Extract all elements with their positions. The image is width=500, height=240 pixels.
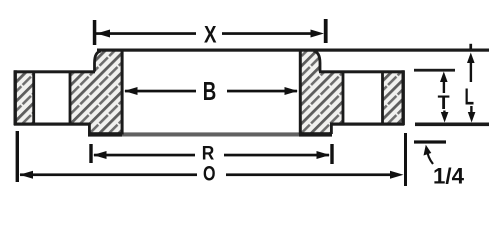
- L dimension arrow up: [467, 53, 475, 64]
- raised face right edge: [330, 123, 333, 134]
- bore left wall: [121, 50, 124, 135]
- ring top line left: [14, 70, 95, 73]
- 1/4 leader arrow: [427, 150, 433, 164]
- raised face bottom line ends: [88, 132, 122, 136]
- ring bottom line left: [14, 123, 90, 126]
- svg-text:B: B: [203, 76, 217, 106]
- ring bottom extension line (T/L reference): [415, 123, 489, 127]
- R dimension left tick: [89, 144, 92, 163]
- hatched left hub wall + ring + raised face left: [70, 51, 122, 134]
- R dimension line with arrows: [93, 151, 107, 159]
- raised face left edge: [88, 123, 91, 134]
- ring left edge: [14, 70, 17, 125]
- L dimension top tick above reference line: [469, 44, 472, 49]
- left hub wall and fillet: [95, 51, 102, 72]
- ring top line right: [319, 70, 404, 73]
- svg-text:X: X: [204, 21, 217, 48]
- 1/4 reference line (raised face bottom extended): [414, 140, 446, 143]
- hatched ring section right strip: [383, 72, 403, 123]
- hub top line (extends right as L reference): [97, 49, 489, 52]
- right bolt hole left line: [342, 72, 345, 123]
- left bolt hole left line: [32, 72, 35, 123]
- ring right edge: [402, 70, 405, 125]
- T dimension arrow down: [443, 111, 445, 116]
- svg-text:O: O: [203, 163, 216, 186]
- L dimension arrow down: [470, 106, 472, 115]
- O dimension line with arrows: [20, 171, 34, 179]
- left bolt hole right line: [69, 72, 72, 123]
- hatched ring section left strip: [16, 72, 33, 123]
- O dimension left tick: [16, 131, 19, 182]
- T dimension arrow up: [440, 72, 448, 83]
- R dimension right tick: [330, 144, 333, 164]
- O dimension right extension line: [404, 133, 407, 186]
- svg-text:R: R: [202, 143, 215, 165]
- X dimension left tick: [93, 20, 97, 45]
- svg-text:L: L: [465, 83, 475, 109]
- raised face bottom line across bore (faint far side): [122, 132, 299, 136]
- X dimension line with arrows: [96, 32, 196, 35]
- svg-text:1/4: 1/4: [433, 164, 465, 189]
- ring top extension line (T reference): [414, 69, 455, 72]
- hatched right hub wall + ring + raised face right: [300, 51, 343, 134]
- X dimension right tick: [324, 19, 328, 43]
- right hub wall and fillet: [314, 51, 321, 72]
- B dimension line with arrows: [124, 87, 138, 95]
- right bolt hole right line: [381, 72, 384, 123]
- bore right wall: [299, 50, 302, 135]
- ring bottom line right: [330, 123, 404, 126]
